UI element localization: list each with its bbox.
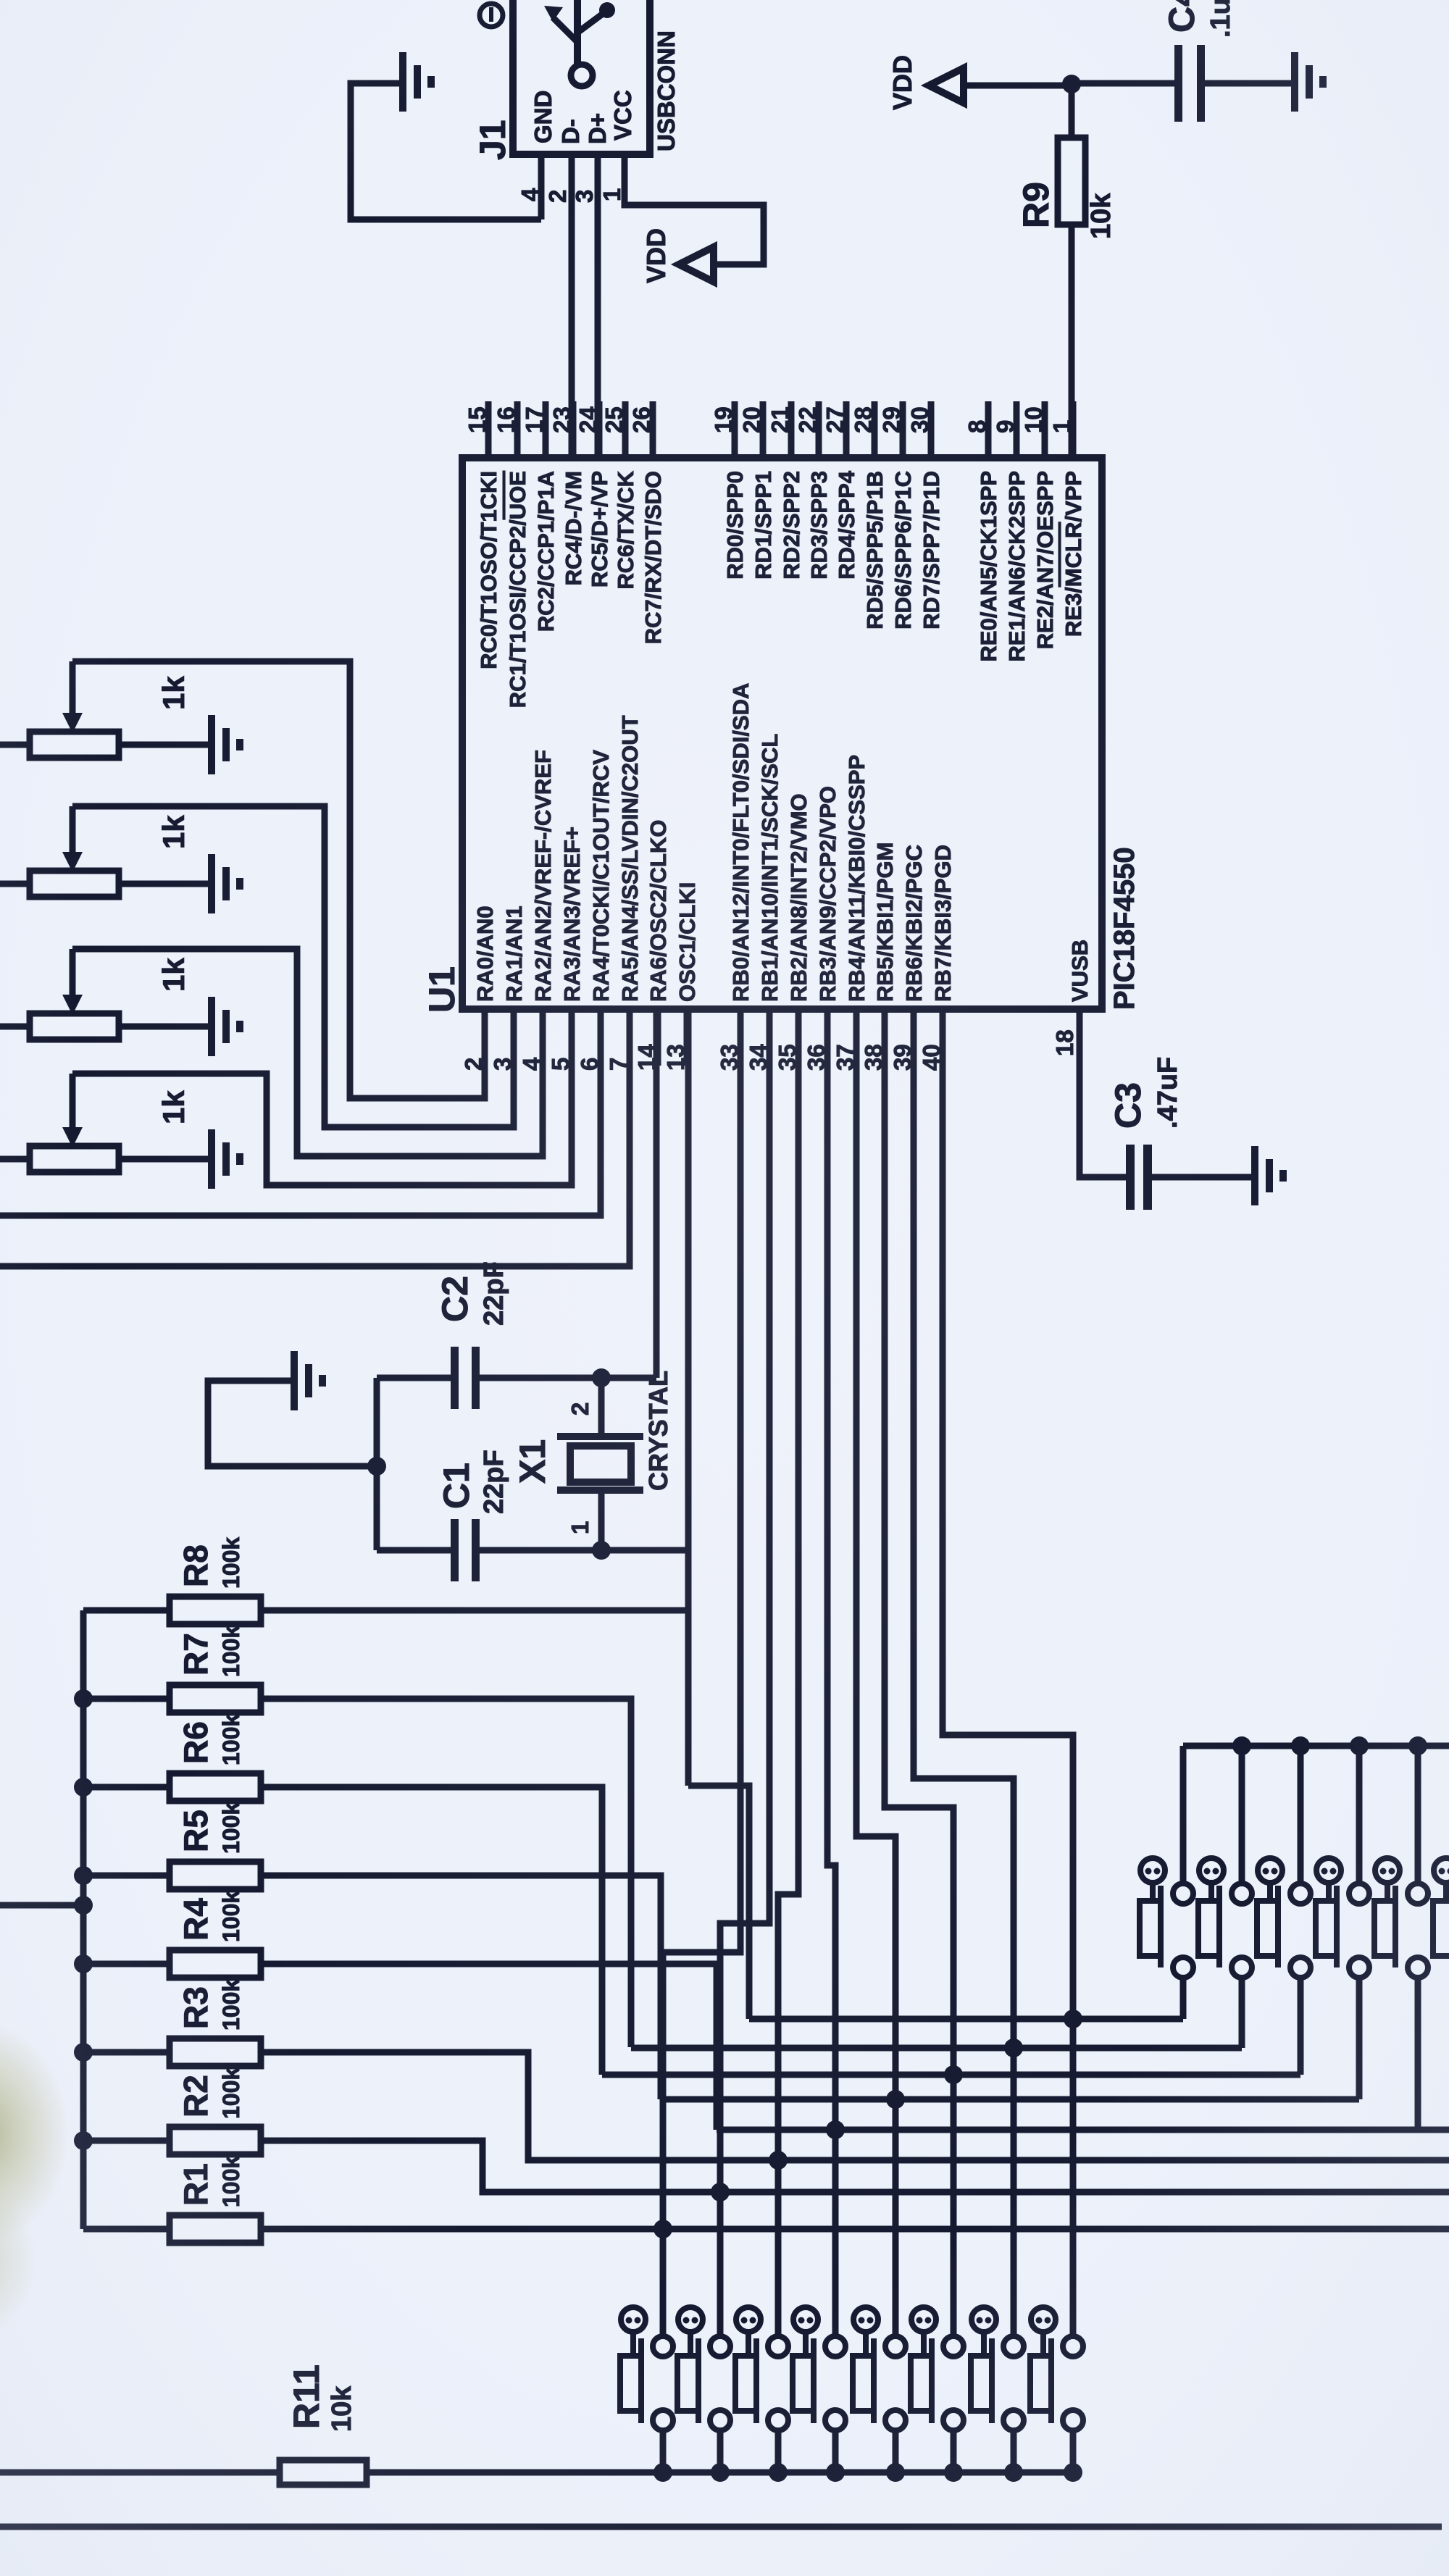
U1 pin 27 RD4/SPP4 — [843, 401, 850, 458]
wire U1 pin 34 to matrix column — [720, 1009, 769, 2337]
resistor R11 10k — [0, 2470, 280, 2476]
wire SW7 bottom riser — [660, 2430, 667, 2472]
U1 pin 37 RB4/AN11/KBI0/CSSPP — [853, 1009, 860, 1066]
node rail R6 — [74, 1778, 93, 1797]
J1 pin 4 stub — [538, 154, 545, 219]
wire SW14 bottom riser — [1070, 2430, 1077, 2472]
connector J1 USBCONN box — [513, 0, 650, 154]
U1 pin 15 RC0/T1OSO/T1CKI — [485, 401, 492, 458]
pushbutton SW4 — [1316, 1858, 1341, 1883]
wire R5 east — [261, 1875, 661, 2099]
wire R1 east — [261, 2226, 1449, 2233]
U1 pin 20 RD1/SPP1 — [760, 401, 767, 458]
pushbutton SW12 — [911, 2307, 936, 2332]
wire SW3 top riser — [1298, 1746, 1304, 1884]
wire VR1 wiper to U1 pin 2 — [72, 661, 485, 1098]
pushbutton SW10 — [793, 2307, 818, 2332]
node rail row1 — [1350, 1736, 1369, 1755]
wire bus row1 y2940 — [717, 2127, 1449, 2133]
resistor R7 100k — [83, 1696, 170, 1702]
node rail R11 — [826, 2463, 845, 2482]
wire GND J1 — [351, 83, 541, 219]
wire VDD to node — [964, 83, 1072, 89]
U1 pin 17 RC2/CCP1/P1A — [543, 401, 549, 458]
J1 pin 2 D- wire to U1 pin 23 — [569, 154, 575, 458]
U1 pin 21 RD2/SPP2 — [788, 401, 795, 458]
U1 pin 33 RB0/AN12/INT0/FLT0/SDI/SDA — [738, 1009, 744, 1066]
pushbutton SW11 — [853, 2307, 878, 2332]
pushbutton SW2 — [1199, 1858, 1224, 1883]
U1 pin 19 RD0/SPP0 — [732, 401, 738, 458]
wire R6 east — [261, 1787, 602, 2075]
U1 pin 3 RA1/AN1 — [511, 1009, 517, 1066]
node R2 column — [711, 2183, 730, 2201]
pushbutton SW14 — [1031, 2307, 1056, 2332]
U1 pin 2 RA0/AN0 — [482, 1009, 488, 1066]
node R1 column — [653, 2220, 672, 2238]
pushbutton SW8 — [678, 2307, 703, 2332]
node bus y2898 — [886, 2090, 905, 2109]
node rail R11 — [944, 2463, 963, 2482]
U1 pin 7 RA5/AN4/SS/LVDIN/C2OUT — [627, 1009, 633, 1066]
pushbutton SW1 — [1140, 1858, 1165, 1883]
node rail R5 — [74, 1866, 93, 1885]
node MCLR-VDD — [1062, 75, 1081, 93]
resistor R3 100k — [83, 2049, 170, 2056]
node rail west — [74, 1896, 93, 1915]
ground C4 — [1291, 52, 1298, 112]
wire bus row1 y2864 — [602, 2072, 1300, 2078]
node bus y2827 — [1004, 2038, 1023, 2057]
U1 pin 36 RB3/AN9/CCP2/VPO — [824, 1009, 831, 1066]
U1 pin 26 RC7/RX/DT/SDO — [650, 401, 656, 458]
wire R4 east — [261, 1964, 717, 2130]
wire U1 pin 40 to matrix column — [943, 1009, 1073, 2337]
J1 pin 1 VCC wire to VDD — [625, 154, 764, 264]
node rail R11 — [1004, 2463, 1023, 2482]
wire bus row1 y2827 — [631, 2045, 1242, 2052]
wire jog to matrix — [688, 1786, 749, 2019]
potentiometer VR4 1k — [0, 1156, 30, 1163]
wire VR3 wiper to U1 pin 4 — [72, 949, 543, 1156]
node rail R11 — [711, 2463, 730, 2482]
node rail R11 — [886, 2463, 905, 2482]
wiper arrow VR2 — [70, 806, 76, 855]
node bus y2940 — [826, 2120, 845, 2139]
wire SW2 bottom riser — [1239, 1977, 1245, 2048]
node crystal gnd — [367, 1457, 386, 1476]
node R3 column — [769, 2151, 788, 2170]
wire node to C4 — [1072, 80, 1174, 87]
resistor R1 100k — [83, 2226, 170, 2233]
wire SW4 bottom riser — [1356, 1977, 1363, 2099]
pushbutton SW6 (cut) — [1434, 1858, 1449, 1883]
wiper arrow VR3 — [70, 949, 76, 998]
potentiometer VR3 1k — [0, 1024, 30, 1030]
wire C1/X1 to U1 pin 13 — [685, 1009, 692, 1786]
node rail R7 — [74, 1689, 93, 1708]
wire U1 pin 18 to C3 — [1080, 1009, 1126, 1177]
potentiometer VR1 1k — [0, 742, 30, 748]
U1 pin 29 RD6/SPP6/P1C — [900, 401, 906, 458]
U1 pin 34 RB1/AN10/INT1/SCK/SCL — [767, 1009, 773, 1066]
pushbutton SW7 — [621, 2307, 646, 2332]
wire U1 pin 7 west — [0, 1009, 630, 1266]
U1 pin 1 RE3/MCLR/VPP — [1070, 401, 1077, 458]
wire U1 pin 37 to matrix column — [856, 1009, 895, 2337]
pushbutton SW13 — [972, 2307, 996, 2332]
U1 pin 6 RA4/T0CKI/C1OUT/RCV — [598, 1009, 604, 1066]
ground VR2 — [208, 854, 215, 913]
node rail R4 — [74, 1954, 93, 1973]
node rail R11 — [769, 2463, 788, 2482]
wire SW11 bottom riser — [893, 2430, 899, 2472]
wire SW4 top riser — [1356, 1746, 1363, 1884]
node rail R11 — [653, 2463, 672, 2482]
row1 top rail — [1183, 1743, 1449, 1749]
node rail R11 — [1064, 2463, 1082, 2482]
capacitor C4 .1uF — [1174, 45, 1182, 122]
wire VR2 wiper to U1 pin 3 — [72, 806, 514, 1127]
wire R3 east — [261, 2052, 1449, 2160]
capacitor C1 22pF — [377, 1547, 451, 1554]
wire SW2 top riser — [1239, 1746, 1245, 1884]
U1 pin 8 RE0/AN5/CK1SPP — [985, 401, 992, 458]
photo smudge artifact — [0, 2021, 69, 2246]
wire SW5 bottom riser — [1415, 1977, 1421, 2130]
wire SW13 bottom riser — [1011, 2430, 1017, 2472]
U1 pin 4 RA2/AN2/VREF-/CVREF — [540, 1009, 546, 1066]
node rail row1 — [1291, 1736, 1310, 1755]
pushbutton SW5 — [1375, 1858, 1400, 1883]
node rail R2 — [74, 2131, 93, 2150]
resistor R5 100k — [83, 1873, 170, 1879]
wire U1 pin 6 west — [0, 1009, 601, 1216]
wire U1 pin 33 to matrix column — [663, 1009, 740, 2337]
resistor R8 100k — [83, 1607, 170, 1614]
U1 pin 16 RC1/T1OSI/CCP2/UOE — [514, 401, 521, 458]
node rail row1 — [1408, 1736, 1427, 1755]
capacitor C3 .47uF — [1126, 1145, 1135, 1210]
wire U1 pin 36 to matrix column — [827, 1009, 835, 2337]
U1 pin 23 RC4/D-/VM — [570, 401, 577, 458]
wire bus row1 y2898 — [661, 2096, 1359, 2103]
wire VR4 wiper to U1 pin 5 — [72, 1009, 572, 1185]
U1 pin 30 RD7/SPP7/P1D — [928, 401, 935, 458]
U1 pin 9 RE1/AN6/CK2SPP — [1014, 401, 1020, 458]
wire SW10 bottom riser — [832, 2430, 839, 2472]
node bus y2864 — [944, 2065, 963, 2084]
U1 pin 40 RB7/KBI3/PGD — [940, 1009, 946, 1066]
node rail R3 — [74, 2043, 93, 2062]
ground near J1 — [399, 52, 406, 112]
pushbutton SW3 — [1258, 1858, 1282, 1883]
U1 pin 13 OSC1/CLKI — [684, 1009, 690, 1066]
U1 pin 35 RB2/AN8/INT2/VMO — [796, 1009, 802, 1066]
U1 pin 24 RC5/D+/VP — [596, 401, 603, 458]
USB polarity circle — [480, 4, 503, 27]
U1 pin 14 RA6/OSC2/CLKO — [655, 1009, 661, 1066]
wire rail west — [0, 1902, 83, 1909]
resistor R9 10k — [1069, 83, 1075, 138]
wire SW5 top riser — [1415, 1746, 1421, 1884]
wire C4 to ground — [1205, 80, 1292, 87]
resistor R6 100k — [83, 1784, 170, 1791]
pushbutton SW9 — [736, 2307, 761, 2332]
VDD symbol (MCLR) — [929, 68, 964, 103]
wire SW12 bottom riser — [951, 2430, 957, 2472]
U1 pin 5 RA3/AN3/VREF+ — [569, 1009, 575, 1066]
U1 pin 10 RE2/AN7/OESPP — [1042, 401, 1048, 458]
wire R2 east — [261, 2141, 1449, 2192]
node bus y2787 — [1064, 2010, 1082, 2028]
wire R8 east — [261, 1607, 688, 1614]
wire C2/X1 to U1 pin 14 — [653, 1009, 660, 1378]
wire bus row1 y2787 — [749, 2016, 1183, 2023]
VDD symbol (USB) — [679, 247, 714, 282]
node rail row1 — [1232, 1736, 1251, 1755]
wiper arrow VR1 — [70, 661, 76, 716]
U1 pin 39 RB6/KBI2/PGC — [911, 1009, 917, 1066]
wire U1 pin 38 to matrix column — [885, 1009, 953, 2337]
ground crystal — [291, 1351, 298, 1410]
potentiometer VR2 1k — [0, 881, 30, 887]
U1 pin 28 RD5/SPP5/P1B — [872, 401, 878, 458]
node X1 pin2 — [592, 1368, 611, 1387]
ground VR1 — [208, 715, 215, 774]
wiper arrow VR4 — [70, 1074, 76, 1130]
wire SW9 bottom riser — [775, 2430, 782, 2472]
ground VR3 — [208, 997, 215, 1056]
IC U1 PIC18F4550 box — [462, 458, 1102, 1009]
wire SW8 bottom riser — [717, 2430, 724, 2472]
ground C3 — [1251, 1146, 1258, 1205]
wire left rail crystal — [374, 1378, 380, 1550]
node X1 pin1 — [592, 1541, 611, 1560]
U1 pin 22 RD3/SPP3 — [816, 401, 822, 458]
wire U1 pin 35 to matrix column — [778, 1009, 798, 2337]
U1 pin 38 RB5/KBI1/PGM — [882, 1009, 888, 1066]
U1 pin 18 VUSB — [1077, 1009, 1083, 1066]
wire C3 to ground — [1152, 1174, 1252, 1181]
ground VR4 — [208, 1129, 215, 1189]
bank left rail — [80, 1610, 87, 2229]
wire R7 east — [261, 1699, 631, 2047]
resistor R2 100k — [83, 2138, 170, 2144]
U1 pin 25 RC6/TX/CK — [622, 401, 629, 458]
capacitor C2 22pF — [377, 1375, 451, 1381]
wire SW1 top riser — [1180, 1746, 1187, 1884]
USB symbol — [574, 0, 581, 64]
crystal X1 — [598, 1378, 605, 1434]
J1 pin 3 D+ wire to U1 pin 24 — [595, 154, 601, 458]
wire SW3 bottom riser — [1298, 1977, 1304, 2075]
resistor R4 100k — [83, 1961, 170, 1967]
ground crystal wire — [208, 1381, 377, 1466]
wire SW1 bottom riser — [1180, 1977, 1187, 2019]
wire U1 pin 39 to matrix column — [914, 1009, 1014, 2337]
bottom rail — [0, 2524, 1442, 2530]
